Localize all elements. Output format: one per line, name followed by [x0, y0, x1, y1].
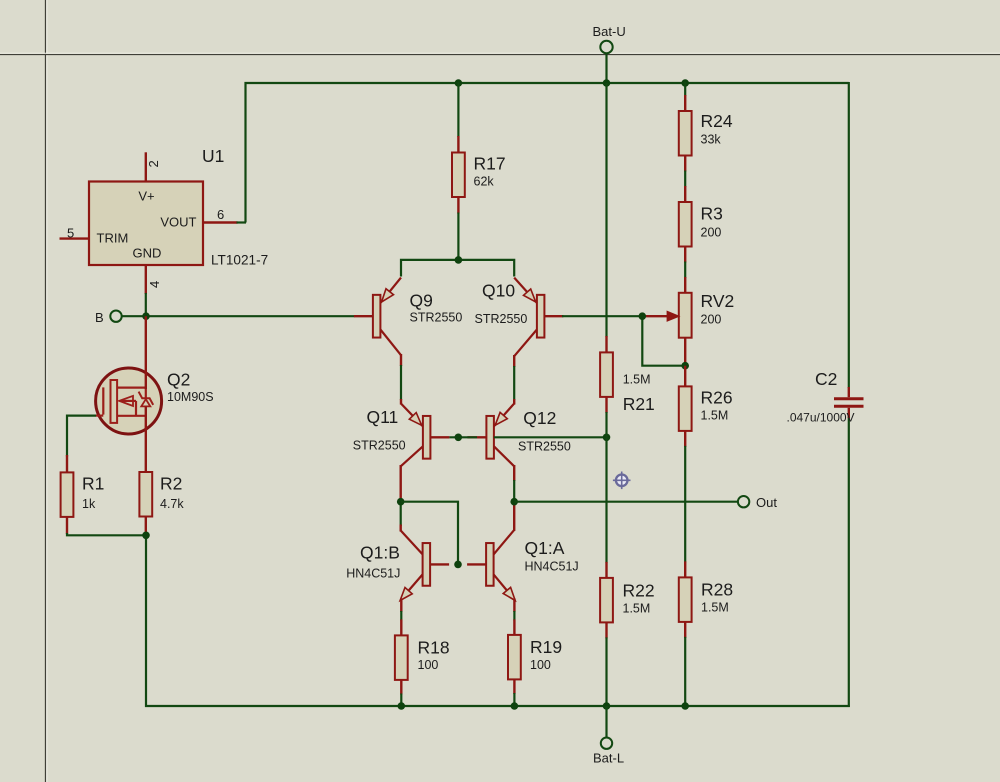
svg-text:U1: U1: [202, 146, 224, 166]
transistor Q9 STR2550: [354, 278, 462, 356]
wire Bat-U to top rail: [605, 53, 607, 83]
svg-text:1.5M: 1.5M: [701, 409, 729, 423]
svg-text:Q9: Q9: [410, 290, 433, 310]
junction RV2 wiper node: [639, 312, 647, 320]
wire top rail to R17: [457, 82, 459, 137]
svg-text:200: 200: [701, 313, 722, 327]
svg-text:4.7k: 4.7k: [160, 497, 184, 511]
transistor Q2 10M90S: [96, 368, 214, 434]
terminal Out: [738, 495, 777, 510]
wire Q1:A emitter to R19: [513, 599, 515, 635]
resistor R17 62k: [452, 153, 506, 198]
U1 pin 5 TRIM: [60, 226, 90, 241]
junction R21 bottom node: [603, 434, 611, 442]
svg-text:1.5M: 1.5M: [623, 373, 651, 387]
svg-text:62k: 62k: [474, 175, 495, 189]
svg-text:STR2550: STR2550: [353, 439, 406, 453]
svg-text:R21: R21: [623, 394, 655, 414]
wire Bat-U chain down to R21: [605, 83, 607, 337]
wire Q12 to R21/R22 node: [494, 436, 607, 438]
svg-text:HN4C51J: HN4C51J: [525, 560, 579, 574]
wire Q2 gate to R1: [67, 416, 103, 457]
wire R22 to bottom rail: [605, 637, 607, 707]
svg-text:Out: Out: [756, 495, 777, 510]
wire right rail down to C2: [848, 82, 850, 388]
svg-text:Bat-L: Bat-L: [593, 751, 624, 766]
svg-text:B: B: [95, 310, 104, 325]
transistor Q1:B HN4C51J: [346, 531, 449, 601]
wire Q11 base to Q12 base: [449, 436, 477, 438]
svg-text:10M90S: 10M90S: [167, 390, 214, 404]
wire R24 to R3: [684, 171, 686, 188]
wire top rail to R24: [684, 82, 686, 96]
wire Q2 source to R2: [145, 406, 147, 472]
wire R1 bottom to R2 bottom: [67, 533, 146, 535]
U1 pin 4 GND: [146, 265, 162, 316]
junction Q1 bases: [454, 561, 462, 569]
wire R18 to bottom rail: [400, 680, 402, 707]
svg-text:R18: R18: [418, 638, 450, 658]
junction emitter rail / R17: [455, 256, 463, 264]
wire Q10 base to RV2 wiper node: [562, 315, 642, 317]
svg-text:5: 5: [67, 226, 74, 241]
transistor Q12 STR2550: [467, 404, 570, 467]
terminal Bat-U: [593, 24, 626, 53]
junction R18 / bottom rail: [398, 702, 406, 710]
wire R21 to node: [605, 412, 607, 437]
svg-text:STR2550: STR2550: [518, 440, 571, 454]
svg-text:STR2550: STR2550: [410, 310, 463, 324]
junction RV2 bottom / R26: [681, 362, 689, 370]
resistor R26 1.5M: [679, 386, 733, 431]
wire Q11 collector down: [400, 465, 402, 532]
svg-text:R26: R26: [701, 388, 733, 408]
wire Q9 collector down: [400, 354, 402, 405]
svg-text:R28: R28: [701, 580, 733, 600]
resistor R3 200: [679, 202, 723, 247]
terminal B: [95, 310, 122, 325]
wire R26 to R28: [684, 446, 686, 563]
svg-text:200: 200: [701, 226, 722, 240]
wire Q10 collector down: [513, 355, 515, 405]
svg-text:Q1:A: Q1:A: [525, 538, 565, 558]
svg-text:Q12: Q12: [523, 408, 556, 428]
resistor R19 100: [508, 635, 562, 680]
svg-text:RV2: RV2: [701, 291, 735, 311]
wire R3 to RV2: [684, 262, 686, 279]
wire R19 to bottom rail: [513, 679, 515, 707]
svg-text:R3: R3: [701, 204, 723, 224]
junction U1 GND / B wire: [142, 312, 150, 320]
svg-text:2: 2: [146, 160, 161, 167]
svg-text:C2: C2: [815, 369, 837, 389]
svg-text:Q10: Q10: [482, 280, 515, 300]
wire Q12 collector down: [513, 465, 515, 531]
svg-text:TRIM: TRIM: [97, 231, 129, 246]
wire collector node to Q1 bases: [401, 502, 458, 565]
junction top rail / Bat-U chain: [603, 79, 611, 87]
wire R1/R2 node to bottom rail: [145, 535, 147, 707]
resistor R21 1.5M: [600, 352, 655, 414]
resistor R28 1.5M: [679, 577, 733, 622]
svg-text:Q2: Q2: [167, 369, 190, 389]
svg-text:R2: R2: [160, 474, 182, 494]
wire VOUT to rail corner: [237, 221, 247, 223]
transistor Q11 STR2550: [353, 404, 450, 467]
wire R28 to bottom rail: [684, 637, 686, 707]
svg-text:Q11: Q11: [367, 407, 399, 427]
U1 pin 2 V+: [146, 152, 161, 181]
wire B to Q9 base: [122, 315, 355, 317]
junction R19 / bottom rail: [511, 702, 519, 710]
svg-text:VOUT: VOUT: [160, 215, 196, 230]
svg-text:33k: 33k: [701, 133, 722, 147]
wire Q2 drain to node B: [145, 316, 147, 389]
svg-text:100: 100: [418, 658, 439, 672]
svg-text:Bat-U: Bat-U: [593, 24, 626, 39]
svg-text:100: 100: [530, 658, 551, 672]
resistor R1 1k: [61, 472, 105, 517]
svg-text:LT1021-7: LT1021-7: [211, 253, 268, 268]
svg-text:STR2550: STR2550: [475, 312, 528, 326]
junction Q11/Q1:B collectors: [397, 498, 405, 506]
svg-text:1.5M: 1.5M: [623, 602, 651, 616]
svg-text:R24: R24: [701, 111, 733, 131]
wire bottom rail: [145, 705, 850, 707]
resistor R2 4.7k: [139, 472, 184, 517]
svg-text:4: 4: [147, 281, 162, 288]
junction R28 / bottom rail: [681, 702, 689, 710]
potentiometer RV2 200: [643, 291, 735, 338]
svg-text:R19: R19: [530, 637, 562, 657]
wire R17 to emitter rail: [457, 213, 459, 261]
wire RV2 wiper to bottom of RV2: [642, 316, 685, 366]
svg-text:Q1:B: Q1:B: [360, 543, 400, 563]
wire Q1:B emitter to R18: [400, 599, 402, 636]
svg-text:1.5M: 1.5M: [701, 601, 729, 615]
transistor Q10 STR2550: [475, 278, 564, 357]
svg-text:1k: 1k: [82, 497, 96, 511]
junction bottom rail / Bat-L: [603, 702, 611, 710]
terminal Bat-L: [593, 706, 624, 766]
svg-text:V+: V+: [138, 189, 154, 204]
svg-text:6: 6: [217, 207, 224, 222]
junction top rail / R24 chain: [681, 79, 689, 87]
resistor R24 33k: [679, 111, 733, 156]
junction Q11/Q12 bases: [455, 434, 463, 442]
U1 pin 6 VOUT: [203, 207, 238, 223]
wire node to R22: [605, 437, 607, 563]
svg-text:R22: R22: [623, 581, 655, 601]
svg-text:R1: R1: [82, 474, 104, 494]
wire top rail: [246, 83, 849, 223]
svg-text:GND: GND: [133, 246, 162, 261]
transistor Q1:A HN4C51J: [467, 530, 579, 601]
voltage reference U1 LT1021-7: [89, 146, 268, 268]
capacitor C2 .047u/1000V: [787, 369, 864, 425]
junction top rail / R17: [455, 79, 463, 87]
wire Out: [514, 501, 738, 503]
svg-text:R17: R17: [474, 154, 506, 174]
junction Q12/Q1:A collectors / Out node: [510, 498, 518, 506]
node origin marker: [613, 472, 631, 490]
wire C2 to bottom rail: [848, 417, 850, 707]
resistor R22 1.5M: [600, 578, 655, 623]
resistor R18 100: [395, 635, 450, 680]
svg-text:HN4C51J: HN4C51J: [346, 566, 400, 580]
svg-text:.047u/1000V: .047u/1000V: [787, 411, 855, 425]
wire Q9-Q10 emitter rail: [401, 260, 514, 277]
junction R2 bottom: [142, 532, 150, 540]
